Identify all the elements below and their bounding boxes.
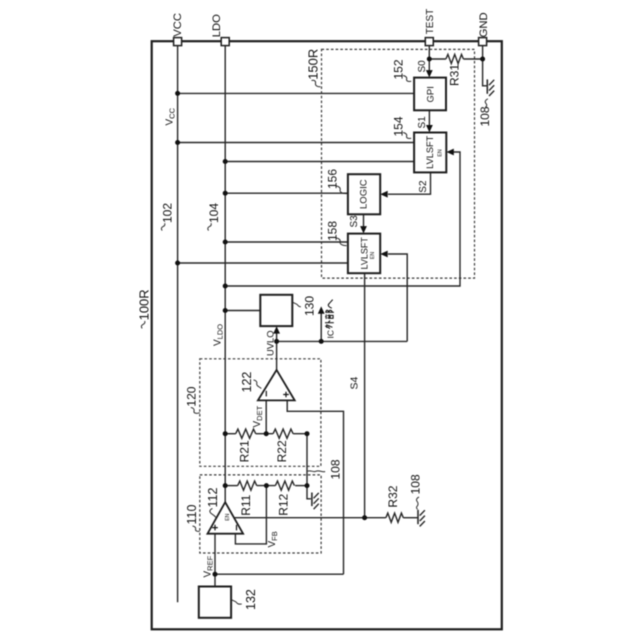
svg-text:108: 108 [478, 106, 492, 126]
svg-text:S4: S4 [348, 376, 360, 389]
svg-text:132: 132 [244, 589, 258, 610]
svg-text:110: 110 [185, 505, 199, 525]
svg-text:R31: R31 [447, 64, 461, 86]
svg-text:GPI: GPI [425, 86, 436, 102]
svg-text:GND: GND [478, 12, 490, 37]
svg-text:R32: R32 [386, 485, 400, 507]
svg-text:130: 130 [302, 296, 316, 316]
svg-text:EN: EN [438, 149, 444, 156]
svg-text:R21: R21 [238, 440, 252, 462]
svg-text:S2: S2 [418, 180, 429, 193]
svg-text:R11: R11 [239, 494, 253, 515]
svg-text:TEST: TEST [425, 9, 436, 35]
svg-text:LOGIC: LOGIC [359, 179, 370, 209]
svg-text:LVLSFT: LVLSFT [359, 237, 369, 270]
svg-text:LVLSFT: LVLSFT [425, 135, 435, 168]
svg-text:120: 120 [184, 386, 198, 406]
svg-text:IC: IC [325, 330, 335, 339]
svg-text:R22: R22 [275, 440, 289, 462]
svg-text:108: 108 [408, 474, 422, 494]
svg-text:154: 154 [391, 116, 405, 136]
svg-text:R12: R12 [276, 493, 290, 515]
svg-text:108: 108 [329, 459, 343, 479]
svg-text:VCC: VCC [172, 13, 184, 37]
svg-text:S1: S1 [417, 116, 428, 129]
svg-text:S0: S0 [417, 60, 428, 73]
svg-text:S3: S3 [349, 215, 360, 228]
svg-text:122: 122 [240, 372, 254, 393]
svg-text:100R: 100R [137, 289, 152, 320]
svg-text:112: 112 [206, 488, 220, 508]
svg-text:EN: EN [225, 513, 231, 520]
svg-text:102: 102 [161, 203, 175, 223]
svg-text:EN: EN [370, 252, 376, 259]
svg-text:UVLO: UVLO [264, 330, 275, 356]
svg-text:152: 152 [391, 59, 405, 79]
svg-text:150R: 150R [305, 49, 320, 80]
svg-text:104: 104 [207, 203, 221, 223]
svg-text:LDO: LDO [211, 14, 223, 37]
